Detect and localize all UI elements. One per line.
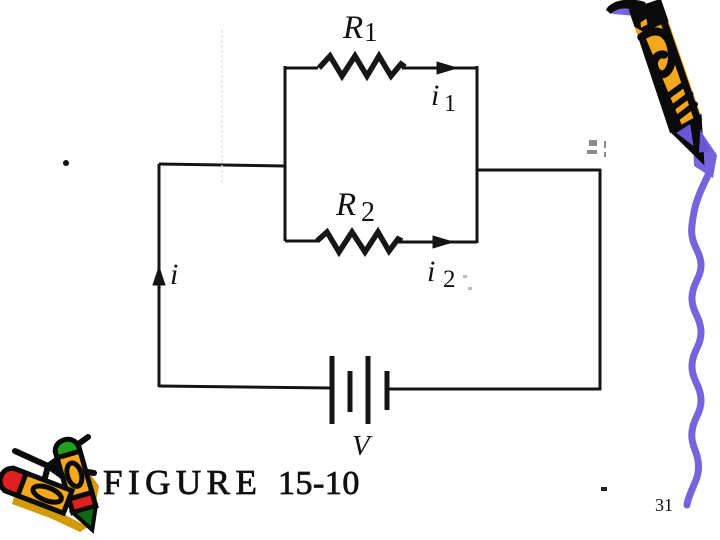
svg-text:2: 2 <box>361 197 375 228</box>
battery V plate 1 (long) <box>330 356 335 424</box>
red cap <box>0 465 26 495</box>
crayon tip cone black <box>667 114 717 173</box>
amber shadow right of crayon B <box>84 468 99 507</box>
wire: right outer vertical <box>599 169 602 390</box>
crayon top hook black <box>606 0 652 22</box>
oval mark <box>64 461 84 488</box>
right inner black stripe <box>655 3 703 124</box>
wire: bottom left horizontal <box>159 386 331 388</box>
oval mark <box>31 483 64 506</box>
clip-art crayon top right <box>606 0 718 178</box>
purple sliver under hook <box>610 5 640 16</box>
wire: top branch left segment <box>285 67 318 70</box>
svg-text:15-10: 15-10 <box>278 465 360 502</box>
arrowhead i (up) <box>153 267 165 285</box>
wire: bottom right horizontal <box>389 388 601 391</box>
crayon B (steep, green cap) <box>53 437 102 534</box>
svg-text:R: R <box>342 10 363 46</box>
black swirl loop on body <box>641 28 679 78</box>
faint specks near i2 <box>463 275 472 290</box>
resistor R2 <box>317 232 402 252</box>
clip-art crayons bottom left <box>0 437 102 534</box>
yellow fleck in cap <box>639 18 649 27</box>
wire: R2 branch left segment <box>285 240 318 243</box>
svg-text:i: i <box>170 258 178 291</box>
wire: left outer vertical <box>158 164 161 387</box>
crayon A (shallow, red cap left) <box>0 465 72 513</box>
chevron stripe 1 <box>661 83 688 99</box>
battery V plate 4 (short) <box>385 371 390 410</box>
battery V plate 2 (short) <box>348 371 353 412</box>
speck near right connector <box>587 140 606 157</box>
node bullet dot left margin <box>63 160 69 166</box>
wire: top branch right segment <box>402 67 477 70</box>
svg-text:FIGURE: FIGURE <box>103 463 262 502</box>
svg-text:R: R <box>335 187 356 223</box>
purple patch in tip right <box>692 128 710 154</box>
body yellow <box>56 446 92 499</box>
body yellow <box>6 469 72 514</box>
svg-text:31: 31 <box>655 495 673 515</box>
purple patch in tip left <box>675 124 697 150</box>
sparkle star black <box>15 437 94 501</box>
purple squiggle <box>687 171 710 505</box>
svg-text:2: 2 <box>443 266 456 293</box>
wire: right connector horizontal <box>477 169 601 172</box>
svg-text:i: i <box>427 255 435 288</box>
crayon left black edge <box>637 32 683 133</box>
purple shadow right of tip <box>692 118 717 178</box>
wire: branch right vertical <box>476 66 479 243</box>
crayon black cap section <box>629 0 670 34</box>
red band <box>69 493 96 513</box>
amber shadow under crayon A <box>12 497 88 532</box>
svg-text:V: V <box>352 430 373 462</box>
crayon body orange <box>629 1 702 131</box>
chevron stripe 3 <box>672 104 697 119</box>
svg-text:1: 1 <box>444 91 456 117</box>
svg-text:i: i <box>431 79 439 112</box>
chevron stripe 2 <box>667 94 693 110</box>
wire: branch left vertical <box>284 66 287 241</box>
speck bottom right <box>601 487 607 491</box>
wire: R2 branch right segment <box>398 241 477 244</box>
resistor R1 <box>319 56 405 76</box>
green cap <box>53 437 80 458</box>
dark green point <box>73 506 102 534</box>
arrowhead i2 <box>433 236 453 248</box>
arrowhead i1 <box>437 62 457 74</box>
battery V plate 3 (long) <box>366 356 371 424</box>
wire: left connector horizontal <box>159 164 285 166</box>
scan fold line <box>221 30 223 185</box>
svg-text:1: 1 <box>364 17 378 47</box>
